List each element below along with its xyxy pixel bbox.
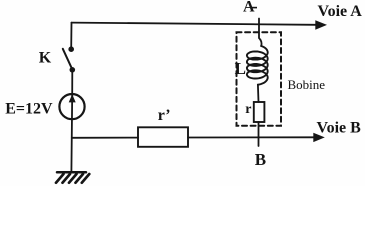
wire bottom left (junction to resistor r') (72, 137, 138, 139)
svg-text:B: B (255, 150, 266, 169)
label node A (5, 0, 362, 169)
wire top horizontal (node A rail to Voie A) (72, 23, 317, 25)
svg-text:K: K (39, 49, 52, 66)
resistor r body (254, 102, 265, 122)
arrowhead Voie B (313, 133, 325, 142)
svg-text:Bobine: Bobine (288, 77, 326, 92)
generator E circle (59, 94, 84, 119)
wire through generator down to ground junction (70, 96, 73, 172)
wire coil to resistor r (257, 85, 260, 102)
bobine dashed box (237, 32, 282, 126)
ground (56, 172, 89, 182)
resistor r' body (138, 127, 188, 147)
switch contact dot top (68, 46, 74, 52)
wire switch to source (71, 70, 73, 96)
svg-text:r’: r’ (158, 107, 171, 124)
wire node A branch into coil (259, 19, 262, 47)
switch K blade (63, 49, 72, 69)
svg-text:Voie A: Voie A (318, 3, 363, 20)
svg-text:E=12V: E=12V (5, 100, 53, 117)
wire left vertical down to switch (70, 23, 72, 49)
switch contact dot bottom (70, 67, 76, 73)
node A crossbar artifact (251, 7, 257, 9)
inductor L coil (247, 46, 268, 85)
svg-text:r: r (245, 102, 251, 117)
generator current arrowhead (69, 94, 76, 102)
wire r' to node B and Voie B (188, 136, 314, 138)
svg-text:Voie B: Voie B (317, 120, 362, 137)
svg-text:L: L (235, 59, 246, 78)
wire r to node B tick (258, 122, 260, 146)
arrowhead Voie A (315, 20, 327, 30)
